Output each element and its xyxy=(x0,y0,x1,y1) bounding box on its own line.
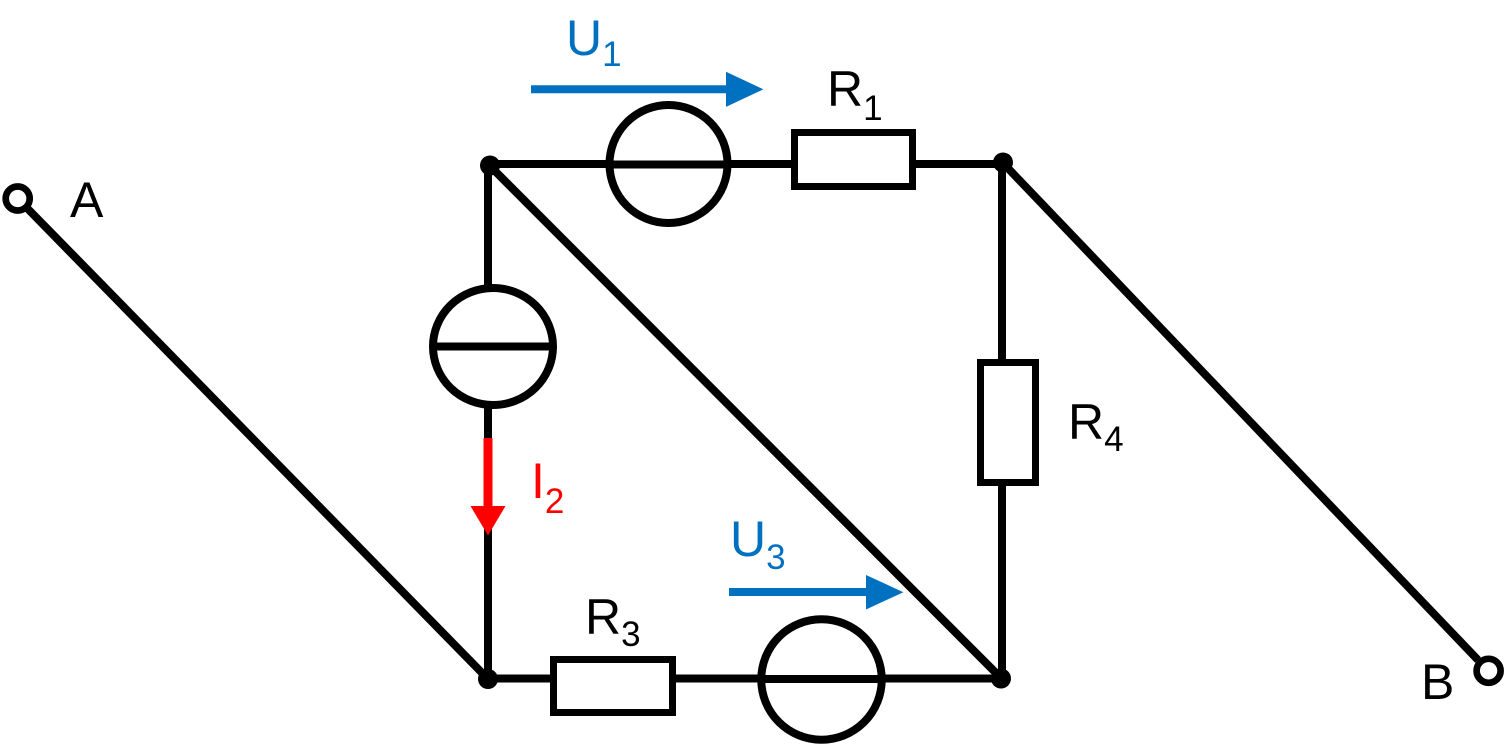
svg-text:R1: R1 xyxy=(827,61,883,128)
resistor R4 xyxy=(981,363,1036,483)
terminal B xyxy=(1477,659,1501,683)
wire left edge xyxy=(484,164,492,679)
voltage source U3 xyxy=(761,619,882,740)
current source I2 xyxy=(433,288,553,405)
resistor R1 xyxy=(795,133,913,187)
svg-text:B: B xyxy=(1421,654,1454,710)
current arrow I2 xyxy=(471,438,506,536)
wire diagonal node to node xyxy=(489,165,1001,678)
svg-text:U1: U1 xyxy=(566,10,622,74)
voltage arrow U3 xyxy=(729,575,903,610)
svg-text:R3: R3 xyxy=(585,589,641,654)
svg-text:I2: I2 xyxy=(531,453,564,521)
wire right edge xyxy=(998,163,1006,678)
node bottom-right xyxy=(991,669,1011,689)
node top-left xyxy=(480,156,500,176)
wire bottom edge xyxy=(488,675,1001,683)
node top-right xyxy=(993,153,1013,173)
terminal A xyxy=(6,187,30,211)
wire from terminal A to bottom-left node xyxy=(27,208,488,679)
voltage source U1 xyxy=(610,105,728,223)
svg-text:A: A xyxy=(70,172,104,228)
resistor R3 xyxy=(554,660,673,713)
svg-text:U3: U3 xyxy=(730,511,786,577)
wire from top-right node to terminal B xyxy=(1003,163,1478,660)
voltage arrow U1 xyxy=(531,72,763,107)
node bottom-left xyxy=(478,669,498,689)
svg-text:R4: R4 xyxy=(1068,394,1124,459)
wire top edge xyxy=(488,160,1003,168)
